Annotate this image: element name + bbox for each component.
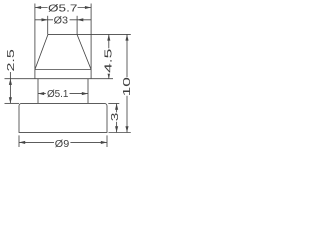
svg-text:Ø5.1: Ø5.1	[47, 89, 69, 100]
part outline: shoulder step edge	[35, 78, 91, 80]
dimension Ø3: right extension line	[76, 16, 78, 35]
label Ø5.7	[48, 3, 78, 15]
arrowhead 2.5 bottom (points down)	[9, 97, 12, 103]
svg-text:Ø9: Ø9	[55, 139, 70, 150]
label 2.5 (rotated)	[6, 48, 17, 71]
arrowhead Ø9 right (points right)	[101, 141, 107, 144]
svg-text:2.5: 2.5	[6, 48, 17, 71]
dimension Ø3: dimension line with tails	[35, 19, 91, 21]
arrowhead 3 top (points up)	[115, 104, 118, 110]
label 4.5 (rotated)	[104, 48, 115, 74]
arrowhead Ø3 right (points left, outside)	[77, 18, 83, 21]
part outline: cone top edge	[48, 33, 77, 35]
dimension 4.5: dimension line	[108, 34, 110, 78]
dimension 10: bottom extension line (shared with 3)	[109, 132, 131, 134]
svg-text:Ø3: Ø3	[54, 16, 69, 27]
part outline: shank right side Ø5.1	[87, 79, 89, 104]
arrowhead Ø3 left (points right, outside)	[42, 18, 48, 21]
svg-text:4.5: 4.5	[104, 48, 115, 73]
dimension Ø5.7: left extension line	[34, 4, 36, 70]
part outline: shank left side Ø5.1	[37, 79, 39, 104]
part outline: flange Ø9	[19, 103, 107, 132]
dimension Ø5.7: right extension line	[90, 4, 92, 70]
label 10 (rotated)	[122, 76, 133, 96]
part outline: cone right slant	[77, 34, 91, 69]
arrowhead 10 bottom (points down)	[125, 126, 128, 132]
arrowhead Ø9 left (points left)	[19, 141, 25, 144]
label Ø5.1	[46, 89, 70, 100]
arrowhead Ø5.7 right (points right)	[85, 6, 91, 9]
dimension Ø9: left extension line	[18, 135, 20, 147]
svg-text:3: 3	[110, 112, 121, 121]
arrowhead 4.5 top (points up)	[107, 34, 110, 40]
dimension 3: dimension line	[116, 104, 118, 133]
arrowhead 3 bottom (points down)	[115, 126, 118, 132]
arrowhead 10 top (points up)	[125, 34, 128, 40]
arrowhead Ø5.7 left (points left)	[35, 6, 41, 9]
dimension Ø5.1: dimension line	[38, 93, 88, 95]
label Ø9	[54, 138, 70, 150]
dimension 2.5: bottom extension line	[5, 102, 20, 104]
part outline: right cylindrical edge Ø5.7	[90, 70, 92, 79]
arrowhead Ø5.1 right (points right)	[82, 92, 88, 95]
part outline: cone left slant	[35, 34, 48, 69]
svg-text:Ø5.7: Ø5.7	[48, 4, 78, 15]
part outline: left cylindrical edge Ø5.7	[34, 70, 36, 79]
dimension Ø9: dimension line	[19, 141, 107, 143]
dimension 2.5: dimension line	[9, 72, 11, 103]
dimension 4.5: top extension line (shared with 10)	[77, 33, 131, 35]
dimension Ø9: right extension line	[106, 135, 108, 147]
dimension 4.5: bottom extension line	[91, 78, 113, 80]
label Ø3	[53, 15, 70, 27]
dimension Ø5.7: dimension line	[35, 7, 91, 9]
svg-text:10: 10	[122, 76, 133, 96]
part outline: cone base edge	[35, 69, 91, 71]
dimension Ø3: left extension line	[47, 16, 49, 35]
label 3 (rotated)	[110, 112, 121, 122]
arrowhead Ø5.1 left (points left)	[38, 92, 44, 95]
arrowhead 4.5 bottom (points down)	[107, 73, 110, 79]
dimension 2.5: top extension line	[5, 78, 35, 80]
arrowhead 2.5 top (points up)	[9, 79, 12, 85]
dimension 3: top extension line	[108, 103, 119, 105]
dimension 10: dimension line	[126, 34, 128, 132]
